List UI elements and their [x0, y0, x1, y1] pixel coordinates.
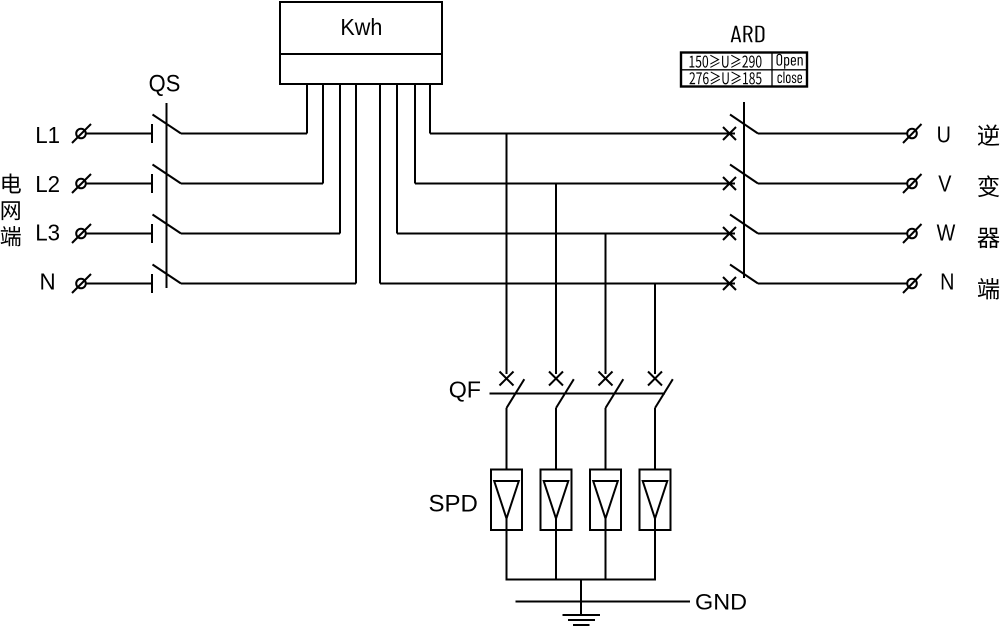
svg-text:L2: L2: [35, 170, 60, 197]
svg-text:QF: QF: [449, 376, 481, 402]
svg-text:W: W: [937, 220, 956, 246]
svg-text:V: V: [938, 171, 952, 197]
svg-text:N: N: [940, 269, 954, 295]
svg-text:L1: L1: [35, 121, 60, 148]
svg-text:N: N: [40, 268, 56, 295]
svg-text:QS: QS: [149, 69, 181, 96]
svg-text:L3: L3: [35, 219, 60, 246]
svg-text:GND: GND: [695, 589, 747, 614]
svg-text:SPD: SPD: [428, 491, 477, 518]
svg-text:U: U: [937, 122, 951, 148]
svg-text:Kwh: Kwh: [340, 14, 382, 40]
